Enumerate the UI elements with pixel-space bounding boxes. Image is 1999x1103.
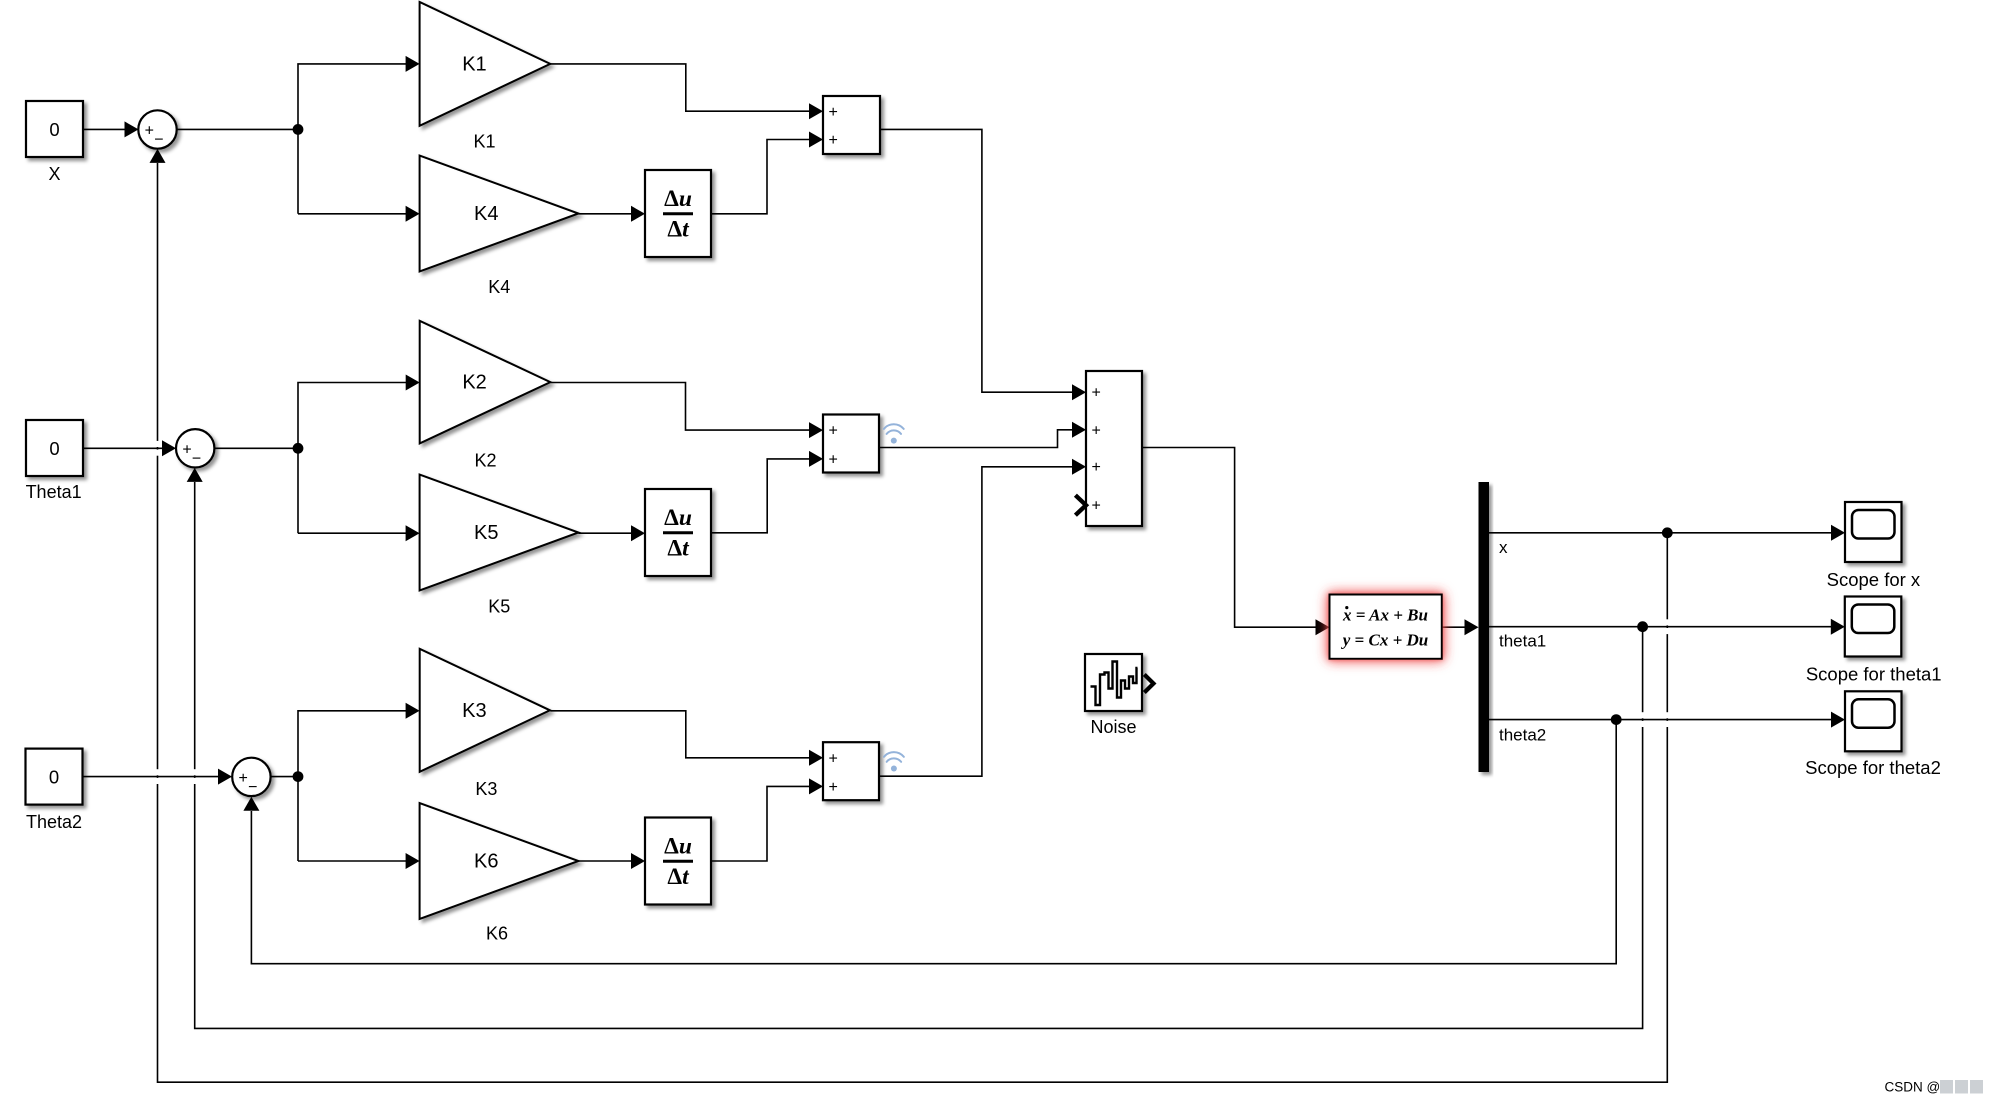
svg-text:x: x (1499, 538, 1508, 557)
scope x (1845, 502, 1902, 562)
watermark (1885, 1080, 1984, 1095)
wire feedback theta1 (195, 482, 1643, 1028)
wire (1142, 448, 1317, 628)
wire (578, 213, 632, 215)
svg-text:−: − (192, 450, 201, 467)
svg-text:+: + (829, 750, 838, 767)
svg-text:+: + (829, 451, 838, 468)
wire (271, 776, 298, 778)
svg-text:K2: K2 (462, 372, 486, 394)
node branch theta1 (1637, 621, 1648, 632)
svg-text:Δt: Δt (667, 536, 690, 562)
wire (298, 383, 407, 534)
node branch theta2 (1611, 714, 1622, 725)
wire (711, 786, 810, 861)
sum S2 (176, 429, 214, 467)
noise output port (1144, 675, 1153, 693)
svg-text:Δt: Δt (667, 864, 690, 890)
svg-text:0: 0 (49, 767, 59, 788)
svg-text:y = Cx + Du: y = Cx + Du (1341, 631, 1429, 650)
svg-text:Δt: Δt (667, 217, 690, 243)
svg-text:K5: K5 (488, 597, 510, 617)
svg-text:K3: K3 (475, 779, 497, 799)
gain K5 (420, 475, 579, 591)
wire feedback theta2 (251, 720, 1616, 964)
svg-text:Scope for x: Scope for x (1827, 569, 1921, 590)
wire (1489, 719, 1832, 721)
constant Theta1 (26, 420, 83, 476)
wire (83, 447, 163, 449)
logging badge row2 (884, 424, 904, 443)
wire (711, 140, 810, 214)
wire (578, 532, 632, 534)
gain K2 (420, 321, 551, 444)
wire (1489, 532, 1832, 534)
svg-text:+: + (239, 770, 248, 787)
derivative D2 (645, 489, 711, 576)
wire (1442, 626, 1466, 628)
svg-text:X: X (48, 164, 60, 184)
svg-text:K2: K2 (474, 450, 496, 470)
svg-text:Δu: Δu (664, 834, 692, 860)
svg-text:Δu: Δu (664, 505, 692, 531)
sum block A1 (823, 96, 880, 154)
constant X (26, 101, 83, 157)
svg-text:Theta2: Theta2 (26, 812, 82, 832)
svg-text:Δu: Δu (664, 186, 692, 212)
gain K1 (420, 2, 551, 126)
state-space block (1330, 595, 1442, 659)
svg-text:+: + (829, 779, 838, 796)
svg-text:K1: K1 (473, 131, 495, 151)
wire (214, 447, 298, 449)
wire (550, 383, 810, 431)
wire (298, 213, 407, 215)
wire (880, 129, 1073, 392)
svg-text:K3: K3 (462, 700, 486, 722)
svg-text:−: − (154, 132, 163, 149)
svg-text:Scope for theta1: Scope for theta1 (1806, 663, 1942, 684)
svg-text:K6: K6 (474, 851, 498, 873)
sum block A4 (4-input) (1086, 371, 1142, 526)
wire (298, 532, 407, 534)
scope theta1 (1845, 597, 1902, 657)
node branch row3 (293, 771, 304, 782)
wire crossing gaps (155, 441, 160, 456)
demux (1479, 482, 1490, 772)
svg-text:+: + (1092, 385, 1101, 402)
svg-text:K5: K5 (474, 522, 498, 544)
svg-text:Theta1: Theta1 (26, 482, 82, 502)
svg-text:0: 0 (49, 119, 59, 140)
svg-text:x = Ax + Bu: x = Ax + Bu (1342, 606, 1428, 625)
svg-text:K4: K4 (488, 277, 510, 297)
wire (879, 430, 1073, 448)
wire (711, 459, 810, 533)
svg-text:+: + (1092, 497, 1101, 514)
sum S3 (232, 758, 270, 796)
sum block A3 (823, 742, 879, 800)
svg-text:−: − (248, 779, 257, 796)
wire (550, 64, 810, 111)
wire (879, 467, 1073, 776)
gain K4 (420, 156, 579, 272)
wire (1489, 626, 1832, 628)
wire (298, 64, 407, 214)
node branch row1 (293, 124, 304, 135)
sum S1 (138, 110, 176, 148)
svg-text:theta2: theta2 (1499, 726, 1546, 745)
svg-text:K6: K6 (486, 923, 508, 943)
wire (298, 711, 407, 861)
svg-text:+: + (182, 441, 191, 458)
wire (578, 860, 632, 862)
svg-text:Scope for theta2: Scope for theta2 (1805, 757, 1941, 778)
node branch row2 (293, 443, 304, 454)
noise source (1085, 654, 1142, 711)
svg-text:0: 0 (49, 438, 59, 459)
logging badge row3 (884, 752, 904, 771)
constant Theta2 (26, 749, 83, 805)
wire (298, 860, 407, 862)
svg-text:+: + (1092, 459, 1101, 476)
svg-text:+: + (145, 123, 154, 140)
svg-text:+: + (829, 132, 838, 149)
derivative D1 (645, 170, 711, 257)
wire (83, 128, 126, 130)
svg-text:theta1: theta1 (1499, 631, 1546, 650)
unconnected input port (1075, 495, 1086, 515)
svg-text:+: + (1092, 422, 1101, 439)
gain K6 (420, 803, 579, 919)
wire (83, 776, 219, 778)
svg-text:+: + (829, 423, 838, 440)
gain K3 (420, 649, 550, 772)
wire (550, 711, 810, 758)
wire feedback x (158, 163, 1668, 1082)
wire (177, 128, 299, 130)
node branch x (1662, 527, 1673, 538)
scope theta2 (1845, 691, 1902, 751)
svg-text:+: + (829, 104, 838, 121)
sum block A2 (823, 415, 879, 473)
svg-text:CSDN @: CSDN @ (1885, 1080, 1941, 1095)
svg-text:K1: K1 (462, 53, 486, 75)
svg-text:K4: K4 (474, 203, 498, 225)
derivative D3 (645, 818, 711, 905)
svg-text:Noise: Noise (1090, 717, 1136, 737)
